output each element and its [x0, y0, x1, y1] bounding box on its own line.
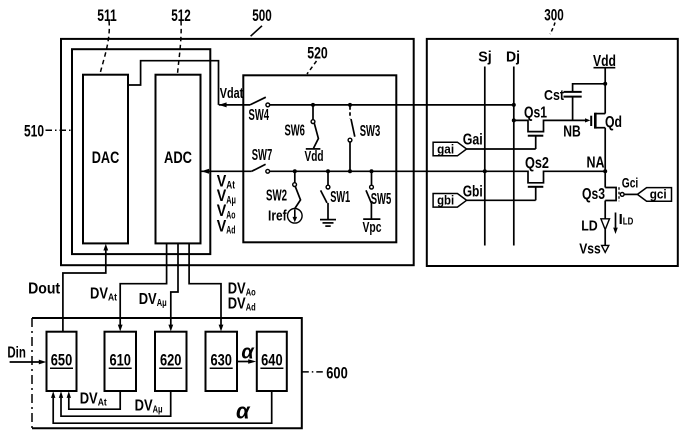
- svg-text:Sj: Sj: [478, 49, 492, 66]
- svg-text:Gci: Gci: [622, 174, 639, 190]
- svg-text:510: 510: [24, 121, 44, 140]
- svg-text:Vpc: Vpc: [363, 219, 382, 236]
- svg-text:520: 520: [307, 43, 328, 62]
- svg-text:Vdat: Vdat: [220, 85, 244, 102]
- svg-text:500: 500: [252, 6, 272, 25]
- svg-text:512: 512: [171, 6, 191, 25]
- svg-text:Vss: Vss: [579, 241, 601, 258]
- svg-text:DVAt: DVAt: [90, 286, 117, 304]
- svg-text:620: 620: [160, 352, 182, 370]
- svg-text:α: α: [236, 399, 251, 424]
- svg-text:Dout: Dout: [28, 281, 61, 298]
- svg-text:300: 300: [544, 6, 564, 25]
- svg-text:DVAμ: DVAμ: [135, 398, 163, 416]
- svg-text:650: 650: [51, 352, 73, 370]
- svg-text:Iref: Iref: [268, 208, 287, 225]
- svg-text:600: 600: [326, 364, 348, 383]
- svg-text:SW5: SW5: [371, 191, 392, 208]
- svg-text:NA: NA: [587, 155, 605, 172]
- svg-text:610: 610: [109, 352, 131, 370]
- svg-text:LD: LD: [581, 218, 598, 235]
- svg-text:SW6: SW6: [284, 123, 305, 140]
- svg-text:DAC: DAC: [92, 148, 120, 167]
- svg-text:Gbi: Gbi: [463, 184, 483, 201]
- svg-text:NB: NB: [563, 124, 581, 141]
- svg-text:Cst: Cst: [544, 87, 564, 104]
- svg-text:SW4: SW4: [249, 107, 270, 124]
- svg-text:SW3: SW3: [360, 123, 381, 140]
- svg-text:DVAt: DVAt: [80, 391, 107, 409]
- svg-text:gbi: gbi: [437, 193, 454, 208]
- svg-text:gai: gai: [437, 141, 454, 156]
- svg-text:511: 511: [97, 6, 117, 25]
- svg-text:Din: Din: [7, 345, 26, 362]
- svg-text:Gai: Gai: [463, 131, 483, 148]
- svg-text:ADC: ADC: [164, 148, 192, 167]
- svg-text:SW7: SW7: [252, 147, 273, 164]
- svg-text:SW2: SW2: [266, 188, 287, 205]
- svg-text:Qs2: Qs2: [525, 155, 549, 172]
- svg-text:Qd: Qd: [605, 114, 622, 131]
- svg-text:Dj: Dj: [506, 49, 520, 66]
- svg-text:ILD: ILD: [619, 211, 634, 228]
- svg-text:gci: gci: [650, 187, 667, 202]
- svg-text:630: 630: [210, 352, 232, 370]
- svg-text:Vdd: Vdd: [305, 148, 324, 165]
- svg-text:640: 640: [261, 352, 283, 370]
- svg-text:Qs3: Qs3: [582, 186, 605, 203]
- svg-text:SW1: SW1: [330, 189, 350, 206]
- svg-text:Vdd: Vdd: [593, 53, 616, 70]
- svg-text:DVAμ: DVAμ: [139, 291, 167, 309]
- svg-text:Qs1: Qs1: [524, 105, 547, 122]
- svg-text:α: α: [241, 342, 255, 364]
